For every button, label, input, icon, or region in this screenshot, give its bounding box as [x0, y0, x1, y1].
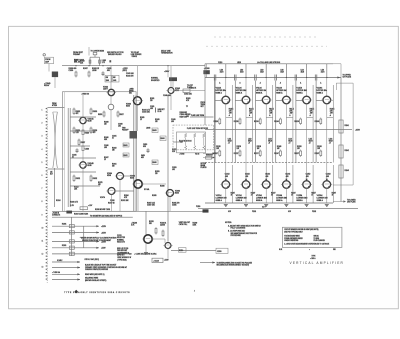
label TO PIN [91, 50, 105, 53]
value label V1124 [236, 81, 247, 94]
fold mark dashes [206, 45, 327, 47]
svg-text:PICKOFF: PICKOFF [122, 130, 129, 132]
svg-text:15K: 15K [155, 121, 158, 123]
label cluster a [131, 223, 137, 227]
value label heater [228, 211, 316, 213]
wire [52, 231, 99, 233]
svg-text:L114: L114 [288, 139, 292, 141]
svg-text:+ C1218: + C1218 [153, 260, 159, 262]
wire [171, 250, 216, 252]
connector J1 [45, 57, 54, 64]
svg-text:10K: 10K [317, 148, 320, 150]
wire [142, 183, 166, 185]
svg-text:4.7: 4.7 [112, 138, 114, 140]
value label R1145 [289, 109, 294, 117]
svg-text:220: 220 [150, 100, 153, 102]
svg-text:L1035: L1035 [102, 60, 106, 62]
svg-text:.5W: .5W [269, 113, 272, 115]
transistor V1064 [115, 173, 125, 180]
net label THRU [52, 271, 61, 274]
svg-text:KEPS NUT: KEPS NUT [117, 255, 125, 257]
wire [245, 78, 247, 97]
svg-text:R1115: R1115 [229, 109, 234, 111]
transistor V1144 [281, 96, 292, 104]
svg-text:C1044 .005: C1044 .005 [142, 112, 150, 114]
svg-text:6688 A: 6688 A [317, 91, 324, 94]
svg-text:R1030 MOUNT C1031: R1030 MOUNT C1031 [95, 209, 110, 211]
svg-text:10K: 10K [277, 148, 280, 150]
ground [244, 205, 248, 207]
wire [285, 78, 287, 97]
svg-text:R1106 68K: R1106 68K [180, 112, 187, 114]
wire [265, 78, 267, 97]
svg-text:C1252: C1252 [306, 174, 311, 176]
label TO CRT [187, 85, 193, 89]
resistor R1054 [160, 136, 166, 141]
resistor on line [69, 240, 74, 243]
svg-text:L110: L110 [280, 70, 283, 72]
value label mid5 [309, 139, 314, 145]
svg-text:33uH: 33uH [220, 71, 223, 73]
svg-text:12K: 12K [104, 124, 107, 126]
resistor R1166 [315, 118, 322, 126]
transistor V1074 [106, 188, 116, 195]
resistor R1053 [152, 128, 158, 133]
resistor R1052 [123, 153, 129, 157]
svg-text:R1126: R1126 [234, 121, 239, 123]
value label [140, 117, 144, 121]
svg-text:R1107 330: R1107 330 [180, 116, 187, 118]
svg-text:+9: +9 [268, 143, 270, 145]
svg-text:+ R1203: + R1203 [131, 223, 137, 225]
svg-text:C1043 .001: C1043 .001 [126, 73, 134, 75]
resistor R1029 [80, 207, 88, 210]
svg-text:C1110: C1110 [218, 62, 222, 64]
transistor V1264 [321, 181, 332, 189]
svg-text:TO UPPER: TO UPPER [343, 75, 352, 77]
value label V1244 [276, 195, 287, 202]
label lower [144, 188, 157, 197]
svg-text:7: 7 [42, 188, 43, 190]
wire [245, 103, 247, 181]
svg-text:PHS WITH INT: PHS WITH INT [117, 250, 127, 252]
value label [142, 110, 150, 114]
resistor R1137 [254, 150, 261, 158]
transistor V1083 [132, 180, 144, 188]
svg-text:RELAY: RELAY [44, 84, 50, 87]
svg-text:FULLY CLOCKWISE: FULLY CLOCKWISE [231, 228, 246, 230]
svg-text:VIEWED FROM FRONT OF INSTRUMEN: VIEWED FROM FRONT OF INSTRUMENT [82, 240, 111, 242]
svg-text:+350V: +350V [101, 232, 107, 234]
wire [286, 117, 293, 119]
transistor V1164 [321, 96, 332, 104]
wire [52, 273, 80, 275]
resistor R1136 [254, 118, 261, 126]
svg-text:6.3 V: 6.3 V [262, 206, 266, 208]
svg-text:USE 6-32 X 5/16: USE 6-32 X 5/16 [117, 248, 128, 250]
net label -150V [101, 248, 106, 250]
svg-text:TYPE: TYPE [312, 256, 316, 258]
value label r1 [231, 193, 236, 197]
svg-text:L112: L112 [248, 139, 252, 141]
resistor R1026 [98, 111, 105, 118]
resistor R1019 [90, 108, 97, 116]
svg-text:R1216: R1216 [179, 250, 183, 252]
value label [112, 148, 117, 152]
svg-text:C1242: C1242 [285, 174, 290, 176]
svg-text:6688 A: 6688 A [256, 91, 263, 94]
svg-text:R1143: R1143 [345, 170, 349, 172]
resistor R1040 [75, 71, 77, 78]
wire [206, 64, 208, 70]
note wire wound [117, 257, 131, 261]
svg-text:R1024: R1024 [56, 200, 61, 202]
svg-text:1: 1 [42, 110, 43, 112]
page mark [194, 290, 195, 292]
switch SW1060 (filled) [169, 77, 177, 81]
svg-text:585: 585 [333, 249, 336, 251]
value label lo2 [245, 174, 250, 178]
transistor V1154 [301, 96, 312, 104]
svg-text:R1028: R1028 [104, 122, 109, 124]
wire [71, 217, 73, 256]
title VERTICAL AMPLIFIER [290, 261, 345, 265]
value label R1125 [249, 109, 254, 117]
svg-text:5: 5 [42, 162, 43, 164]
wire [333, 201, 345, 203]
svg-text:.005: .005 [150, 108, 153, 110]
svg-text:.5W: .5W [310, 113, 313, 115]
wire [52, 253, 132, 255]
svg-text:UPPER: UPPER [201, 163, 207, 165]
svg-text:VERTICAL AMPLIFIER: VERTICAL AMPLIFIER [290, 261, 345, 265]
svg-text:R1141: R1141 [345, 125, 349, 127]
value label [98, 182, 103, 186]
wire [245, 64, 247, 78]
resistor R1035b [99, 60, 101, 63]
svg-text:11: 11 [42, 241, 44, 243]
label SEE NOTE [107, 51, 124, 56]
wire [137, 105, 139, 131]
svg-text:12: 12 [42, 254, 44, 256]
value label m2 [237, 146, 241, 150]
wire [111, 195, 113, 212]
svg-text:.005: .005 [245, 176, 248, 178]
wire [306, 78, 308, 97]
resistor R1211 [162, 230, 164, 238]
transistor V1043 [166, 88, 175, 94]
value label [172, 167, 177, 171]
value label lo5 [306, 174, 311, 178]
value label R1165 [330, 109, 335, 117]
svg-text:+9: +9 [288, 143, 290, 145]
svg-text:WIRE WOUND 5 W: WIRE WOUND 5 W [117, 257, 131, 259]
wire [231, 165, 233, 203]
svg-text:SELECTED: SELECTED [117, 237, 126, 239]
wire [225, 188, 227, 203]
svg-text:6688 A: 6688 A [216, 199, 223, 202]
value label r4 [291, 193, 296, 197]
value label [74, 214, 88, 216]
wire [88, 47, 90, 56]
wire [266, 117, 273, 119]
svg-text:R1084: R1084 [124, 195, 129, 197]
label contact row [52, 213, 60, 217]
svg-text:3: 3 [42, 136, 43, 138]
resistor R1157 [294, 150, 301, 158]
svg-text:VERT SIG OUT: VERT SIG OUT [179, 222, 190, 224]
svg-text:.005: .005 [306, 176, 309, 178]
svg-text:R1127: R1127 [234, 153, 239, 155]
resistor R1016 [73, 127, 80, 135]
label P1150 [196, 206, 200, 208]
wire [332, 85, 334, 163]
label V1014B [88, 163, 95, 167]
label V1064 [107, 173, 112, 177]
svg-text:R1 62 R1 63 R1 64: R1 62 R1 63 R1 64 [179, 140, 192, 142]
svg-text:6DJ8: 6DJ8 [88, 121, 92, 123]
value label r3 [271, 193, 276, 197]
wire [214, 78, 216, 204]
svg-text:TERM SET: TERM SET [206, 155, 213, 157]
svg-text:.001: .001 [172, 169, 175, 171]
svg-text:R1116: R1116 [214, 121, 219, 123]
connector term set [206, 155, 213, 160]
value label [172, 149, 177, 153]
resistor network (plate line termination) [173, 125, 214, 156]
node [75, 65, 103, 66]
ground [284, 205, 288, 207]
label +GRID lines [129, 89, 135, 95]
value label [62, 245, 67, 247]
svg-text:R1054: R1054 [160, 138, 164, 140]
label 6.3V [262, 206, 266, 208]
svg-text:2.7K: 2.7K [102, 62, 105, 64]
svg-text:8233: 8233 [126, 106, 130, 108]
svg-text:P1102: P1102 [312, 211, 316, 213]
value label [110, 200, 115, 202]
value label [104, 157, 109, 161]
note sequence [85, 278, 107, 282]
resistor on line [69, 246, 74, 249]
transistor V1234 [261, 181, 272, 189]
svg-text:6688 A: 6688 A [276, 91, 283, 94]
svg-text:10K: 10K [98, 184, 101, 186]
svg-text:TO LOWER: TO LOWER [347, 200, 356, 202]
svg-text:47: 47 [251, 194, 253, 196]
value label [155, 171, 160, 175]
type label [310, 256, 316, 260]
value label [104, 137, 109, 141]
wire [167, 95, 169, 242]
wire [225, 103, 227, 181]
svg-text:R1118: R1118 [216, 146, 220, 148]
svg-text:C1059: C1059 [172, 167, 177, 169]
label V1014A [88, 118, 95, 123]
svg-text:TO CRT: TO CRT [187, 85, 193, 87]
svg-text:33uH: 33uH [280, 71, 283, 73]
wire cathode rail [205, 129, 352, 131]
switch SW1040 [105, 75, 112, 82]
wire [48, 107, 65, 109]
svg-text:1040: 1040 [106, 80, 110, 82]
wire arrow [326, 179, 328, 181]
svg-text:+225V: +225V [123, 68, 129, 70]
value label V1164 [317, 81, 328, 94]
svg-text:10K: 10K [257, 148, 260, 150]
svg-text:DLY: DLY [50, 174, 53, 176]
svg-text:33uH: 33uH [321, 71, 324, 73]
wire [54, 77, 56, 88]
delay line twisted pair [53, 112, 58, 168]
svg-text:J1250: J1250 [217, 251, 221, 253]
wire [256, 99, 263, 101]
svg-text:TERMINATION: TERMINATION [161, 52, 173, 55]
svg-text:L1048: L1048 [146, 128, 150, 130]
label K1060 [204, 68, 210, 70]
wire [170, 66, 172, 88]
svg-text:P1101: P1101 [252, 211, 256, 213]
svg-text:8233: 8233 [175, 193, 179, 195]
svg-text:330: 330 [112, 166, 115, 168]
svg-text:R1201: R1201 [62, 224, 67, 226]
transistor V1244 [281, 181, 292, 189]
label TO UPPER BEAM [73, 52, 83, 56]
svg-text:R1051: R1051 [123, 145, 127, 147]
svg-text:33uH: 33uH [301, 71, 304, 73]
value label row [92, 68, 100, 72]
wire [70, 145, 90, 147]
ground [305, 205, 309, 207]
value label m3 [257, 146, 261, 150]
svg-text:12AT7: 12AT7 [103, 88, 108, 91]
svg-text:P1150: P1150 [196, 206, 200, 208]
value label [172, 203, 180, 207]
svg-text:6688 A: 6688 A [216, 91, 223, 94]
resistor R1146 [274, 118, 281, 126]
svg-text:C1020: C1020 [85, 149, 89, 151]
value label [186, 98, 190, 102]
value label [155, 119, 160, 123]
svg-text:R1142: R1142 [345, 150, 349, 152]
wire [119, 180, 121, 212]
value label V1254 [296, 195, 307, 202]
svg-text:6DJ8: 6DJ8 [88, 165, 92, 167]
svg-text:R1031 10K: R1031 10K [121, 200, 129, 202]
label cluster b [149, 221, 154, 225]
svg-text:R1147: R1147 [274, 153, 279, 155]
wire [272, 165, 274, 203]
svg-text:33uH: 33uH [260, 71, 263, 73]
notes heading [225, 222, 232, 224]
label vert sig out [217, 261, 252, 266]
footnote text [64, 291, 80, 294]
wire [169, 197, 171, 212]
value label R1155 [310, 109, 315, 117]
capacitor C1144 [275, 75, 277, 81]
relay K1060 (filled) [203, 70, 209, 74]
resistor R1127 [234, 150, 241, 158]
wire [225, 78, 227, 97]
label sw [122, 128, 129, 132]
svg-text:6688 A: 6688 A [276, 199, 283, 202]
svg-text:C1106 .005: C1106 .005 [180, 114, 188, 116]
value label R1135 [269, 109, 274, 117]
wire [285, 188, 287, 203]
node [245, 77, 246, 78]
svg-text:6.8K: 6.8K [104, 139, 107, 141]
wire [285, 103, 287, 181]
wire [170, 94, 172, 111]
svg-text:R1137: R1137 [254, 153, 259, 155]
svg-text:.005: .005 [285, 176, 288, 178]
value label V1114 [216, 81, 227, 94]
svg-text:330: 330 [149, 223, 152, 225]
svg-text:C1262: C1262 [326, 174, 331, 176]
value label [160, 186, 165, 188]
svg-text:6.3V: 6.3V [288, 211, 291, 213]
svg-text:.5W: .5W [249, 113, 252, 115]
wire [327, 117, 334, 119]
value label mid1 [228, 139, 233, 145]
svg-text:C1095: C1095 [172, 205, 177, 207]
note read wire [85, 273, 105, 276]
label +225V [123, 68, 129, 72]
svg-text:R1090: R1090 [160, 186, 165, 188]
svg-text:L113: L113 [268, 139, 272, 141]
wire [52, 247, 99, 249]
label cluster d [179, 222, 190, 226]
ground [224, 205, 228, 207]
relay contact (filled) [66, 211, 72, 214]
svg-text:+ C1205 DELAY LINE 6.3VAC: + C1205 DELAY LINE 6.3VAC [134, 253, 157, 256]
value label [80, 61, 85, 65]
svg-text:R1201: R1201 [62, 245, 67, 247]
wire [225, 64, 227, 78]
svg-text:+TERM: +TERM [179, 154, 185, 156]
wire [70, 116, 96, 118]
svg-text:R1105: R1105 [140, 117, 144, 119]
svg-text:C1016: C1016 [72, 155, 77, 157]
svg-text:R1156: R1156 [294, 121, 299, 123]
wire [70, 185, 100, 187]
resistor R1167 [315, 150, 322, 158]
svg-text:6688 A: 6688 A [296, 91, 303, 94]
wire [215, 99, 222, 101]
svg-text:R1062 5K: R1062 5K [190, 87, 197, 89]
svg-text:4.7K: 4.7K [124, 197, 127, 199]
value label V1224 [236, 195, 247, 202]
value label [124, 195, 129, 199]
svg-text:R1257: R1257 [311, 193, 316, 195]
wire [144, 243, 148, 254]
label to geometry [90, 214, 123, 217]
svg-text:10K: 10K [216, 148, 219, 150]
resistor R1034 [89, 60, 91, 63]
capacitor C1218 [152, 258, 163, 262]
svg-text:C1087 .005: C1087 .005 [147, 205, 155, 207]
resistor R1018 [90, 127, 97, 135]
value label m4 [277, 146, 281, 150]
svg-text:R1166: R1166 [315, 121, 320, 123]
svg-text:+ K1040 B: + K1040 B [52, 213, 59, 215]
title block footer [279, 249, 336, 251]
label -150V [164, 260, 169, 262]
svg-text:L116: L116 [329, 139, 333, 141]
resistor C1020 [82, 146, 89, 151]
svg-text:10K: 10K [297, 148, 300, 150]
wire [246, 117, 253, 119]
